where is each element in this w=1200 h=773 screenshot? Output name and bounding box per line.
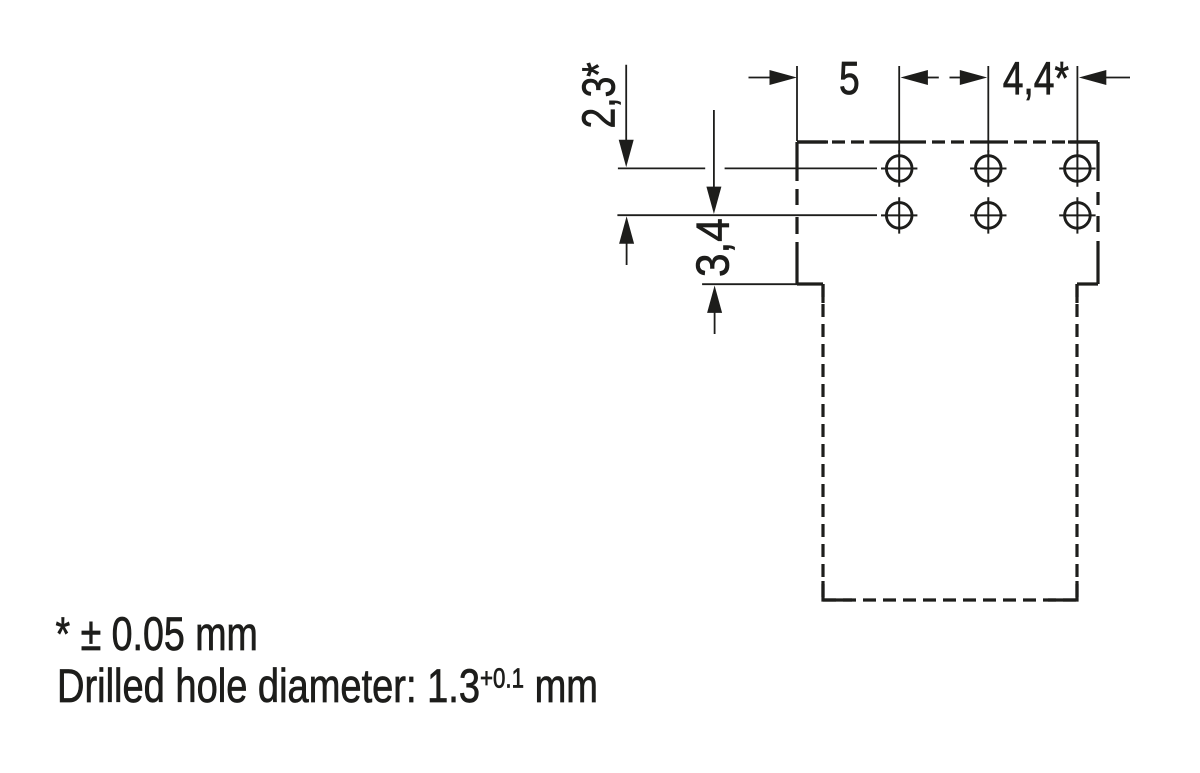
dimension arrow right-pointing at column 2 (dim 4,4) bbox=[960, 70, 987, 85]
body outline left step bbox=[797, 282, 823, 285]
drilled hole row2 col1 bbox=[881, 197, 917, 233]
extension line hole row 2 bbox=[617, 214, 877, 216]
dimension arrow right-pointing at left edge (dim 5) bbox=[770, 70, 797, 85]
drilled hole row1 col1 bbox=[881, 150, 917, 186]
extension line hole row 1 bbox=[618, 167, 877, 169]
body outline right step bbox=[1077, 282, 1098, 285]
extension line column 2 bbox=[987, 66, 989, 152]
body outline solid corner right step bbox=[1075, 284, 1078, 303]
svg-text:3,4: 3,4 bbox=[688, 218, 739, 277]
body outline lower-left edge (dashed) bbox=[821, 284, 824, 600]
body outline solid corner top-right bbox=[1068, 140, 1098, 143]
dimension 2,3* up arrow line bbox=[619, 216, 634, 243]
drilled hole row2 col2 bbox=[970, 197, 1006, 233]
dimension 3,4 down arrow line bbox=[713, 110, 715, 188]
dimension arrow left-pointing at column 3 (dim 4,4) bbox=[1079, 70, 1106, 85]
body outline solid corner bottom-left bbox=[823, 581, 852, 600]
body outline top edge (dashed) bbox=[797, 140, 1098, 143]
dimension 3,4 up arrow line bbox=[707, 286, 722, 313]
dimension 2,3* down arrow line bbox=[625, 65, 627, 142]
svg-text:* ± 0.05 mm: * ± 0.05 mm bbox=[56, 608, 258, 661]
drilled hole row1 col2 bbox=[970, 150, 1006, 186]
body outline upper-left edge (dashed) bbox=[795, 142, 798, 284]
body outline bottom edge (dashed) bbox=[823, 598, 1077, 601]
svg-text:5: 5 bbox=[839, 52, 860, 104]
svg-text:4,4*: 4,4* bbox=[1003, 52, 1069, 104]
drilled hole row2 col3 bbox=[1059, 197, 1095, 233]
body outline lower-right edge (dashed) bbox=[1075, 284, 1078, 600]
extension line column 1 bbox=[898, 66, 900, 152]
drilled hole row1 col3 bbox=[1059, 150, 1095, 186]
extension line step (for dim 3,4) bbox=[702, 283, 797, 285]
dimension arrow left-pointing at column 1 (dim 5) bbox=[901, 70, 928, 85]
extension line left edge (for dim 5) bbox=[796, 66, 798, 141]
body outline upper-right edge (dashed) bbox=[1096, 142, 1099, 284]
body outline solid corner top-left bbox=[797, 140, 828, 143]
extension line column 3 bbox=[1076, 66, 1078, 152]
svg-text:2,3*: 2,3* bbox=[573, 62, 625, 128]
body outline solid corner bottom-right bbox=[1048, 581, 1077, 600]
body outline solid corner left step bbox=[821, 284, 824, 303]
